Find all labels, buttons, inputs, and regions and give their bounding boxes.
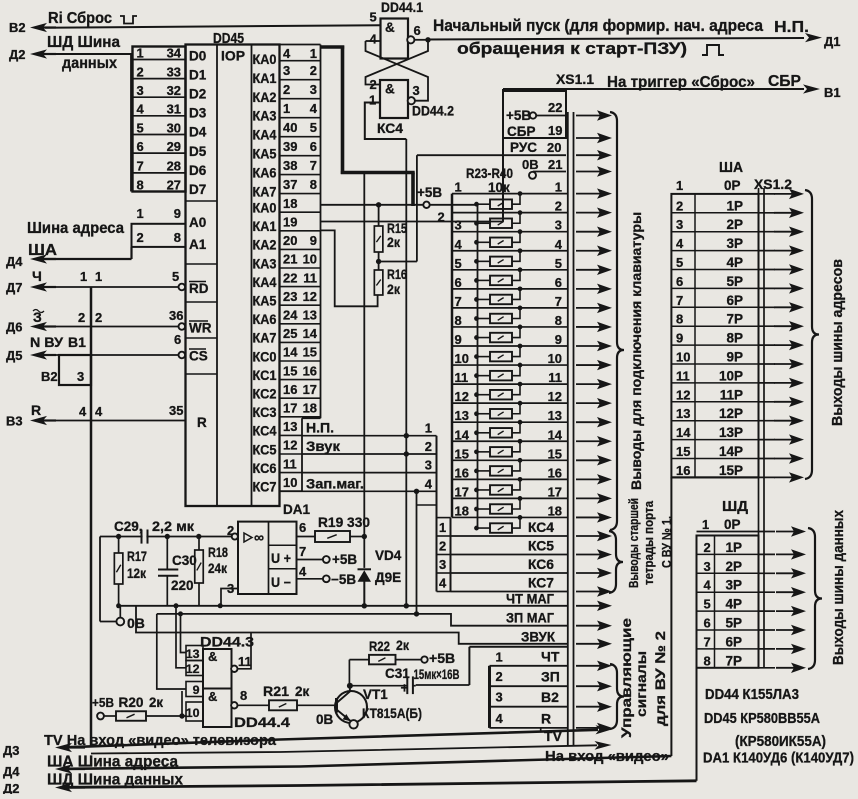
svg-text:1: 1 [496,650,503,665]
svg-text:13: 13 [455,408,469,423]
svg-text:10: 10 [186,706,200,720]
svg-text:Ri Сброс: Ri Сброс [48,10,112,27]
svg-text:+5В: +5В [417,185,442,200]
wire Д4 [45,258,132,260]
wire keyboard row 15 [452,459,568,461]
wire VT1 emitter [337,710,352,723]
svg-text:37: 37 [283,177,297,192]
junction ЗП МАГ/КС7 [414,611,419,616]
svg-text:3: 3 [413,83,420,98]
wire Д3 TV видео line [68,730,598,747]
connector pin box right of DD45 [280,44,321,46]
svg-text:КС4: КС4 [377,121,403,136]
svg-text:22: 22 [283,270,297,285]
arrow output [576,326,601,328]
svg-text:КС7: КС7 [528,576,554,591]
wire ША feed vertical [670,477,672,756]
wire Н.П. to Д1 [426,38,804,40]
node B2 arrow (Ri Сброс) [40,26,56,28]
wire 0В circle to rail [119,606,121,618]
resistor R20 2к [116,711,146,721]
arrow output [576,459,601,461]
svg-text:11: 11 [455,370,469,385]
svg-text:4: 4 [555,237,563,252]
svg-text:3: 3 [455,218,462,233]
svg-text:34: 34 [167,45,182,60]
svg-text:15: 15 [303,345,317,360]
junction VT1 collector [347,683,353,689]
arrow ША 7Р [774,325,793,327]
arrow output [576,269,601,271]
terminal -5В circle DA1 [323,575,330,582]
svg-text:КС4: КС4 [253,424,277,439]
svg-text:VD4: VD4 [375,548,402,563]
svg-text:15Р: 15Р [719,463,743,478]
wire C31 to connector box [416,684,470,686]
svg-text:В3: В3 [6,414,23,429]
arrow ША 1Р [774,212,793,214]
svg-text:11: 11 [548,370,562,385]
svg-text:З: З [33,309,42,325]
arrow output [576,231,601,233]
arrow output [576,345,601,347]
arrow ША 14Р [774,458,793,460]
brace шина адресов [805,190,819,479]
svg-text:3: 3 [555,218,562,233]
arrow ШД [776,667,795,669]
arrow output [576,250,601,252]
resistor R34 10к [477,413,491,415]
svg-text:2к: 2к [295,684,310,699]
arrow output [576,665,601,667]
svg-text:3: 3 [310,82,317,97]
svg-text:9: 9 [174,206,181,221]
terminal +5В circle 2 [423,202,429,208]
svg-text:2: 2 [676,198,683,213]
arrow ШД [776,648,795,650]
svg-text:31: 31 [167,102,181,117]
svg-text:2: 2 [496,669,503,684]
wire ЗП row [490,685,568,687]
svg-text:R22: R22 [369,639,390,654]
svg-text:30: 30 [167,120,181,135]
svg-text:Д2: Д2 [3,781,19,794]
connector pin cells 13,12 [186,646,203,661]
svg-text:С30: С30 [172,553,197,568]
svg-text:Зап.маг.: Зап.маг. [306,475,364,491]
resistor R23 10к [477,203,491,205]
arrow output [576,383,601,385]
wire thick bus horizontal [341,171,415,175]
svg-text:14: 14 [676,425,691,440]
pulse symbol Ri [120,16,137,24]
svg-text:11: 11 [676,368,690,383]
arrow output [576,706,601,708]
wire R row [490,727,568,729]
svg-text:для ВУ № 2: для ВУ № 2 [653,631,669,726]
connector pin cells 9,10 [186,682,203,697]
svg-text:1: 1 [676,178,683,193]
svg-text:6: 6 [414,23,421,38]
svg-text:Д4: Д4 [6,254,23,269]
svg-text:7Р: 7Р [726,312,743,327]
wire pin6 to R19 [297,536,316,538]
capacitor C29 2,2мк [141,530,143,544]
wire R15/R16 junction horizontal [379,261,417,263]
wire СБР to В1 [503,88,804,90]
svg-text:1: 1 [702,517,709,532]
arrow ША 2Р [774,231,793,233]
svg-text:XS1.2: XS1.2 [754,176,792,192]
wire keyboard row 5 [452,269,568,271]
svg-text:7: 7 [299,544,306,559]
svg-text:0В: 0В [316,712,334,727]
svg-text:10: 10 [303,252,317,267]
svg-text:12: 12 [548,389,562,404]
resistor R24 10к [477,222,491,224]
wire СБР vertical [502,89,504,222]
svg-text:0В: 0В [522,157,539,172]
inverter circle DD44.2 [408,97,415,104]
svg-text:&: & [385,82,395,97]
svg-text:КС5: КС5 [528,539,554,554]
arrow output [576,137,601,139]
svg-text:2: 2 [704,540,711,555]
svg-text:Д6: Д6 [6,320,22,335]
wire C29 top rail [100,536,232,538]
svg-text:23: 23 [283,289,297,304]
wire R21 to VT1 base [297,704,336,706]
wire cross-coupling RS latch [366,40,429,85]
svg-text:19: 19 [283,215,297,230]
wire keyboard row 7 [452,307,568,309]
svg-text:R: R [197,415,207,430]
wire boundary double line 1 [567,112,569,746]
svg-text:D5: D5 [189,144,207,159]
svg-text:3: 3 [283,63,290,78]
svg-text:2: 2 [425,439,432,454]
resistor R40 10к [477,527,491,529]
svg-text:+5В: +5В [429,650,455,666]
arrow ША 5Р [774,287,793,289]
svg-text:+5В: +5В [92,695,114,710]
svg-text:СБР: СБР [768,73,801,90]
wire КС4/КС5 vertical [405,139,407,606]
gate DD44.4 [203,689,232,728]
svg-text:ШД Шина данных: ШД Шина данных [47,772,183,789]
svg-text:13: 13 [548,408,562,423]
svg-text:12к: 12к [127,566,146,581]
arrow output [576,497,601,499]
svg-text:R21: R21 [263,684,290,699]
svg-text:VT1: VT1 [363,687,388,702]
svg-text:Начальный пуск (для формир. на: Начальный пуск (для формир. нач. адреса [433,17,764,35]
svg-text:2: 2 [78,310,85,325]
junction output 6 [425,37,430,42]
svg-text:9: 9 [193,683,200,697]
svg-text:18: 18 [303,401,317,416]
svg-text:3: 3 [496,690,503,705]
svg-text:15: 15 [283,363,297,378]
arrow output [576,115,601,117]
wire КС6 lower row [451,572,568,574]
junction КС5 net / rail [404,603,409,608]
svg-text:14: 14 [283,345,298,360]
svg-text:12: 12 [283,438,297,453]
arrow output [576,605,601,607]
svg-text:24к: 24к [208,561,227,576]
svg-text:R19 330: R19 330 [318,515,370,530]
wire ШД feed vertical [696,668,698,781]
arrow output [576,478,601,480]
svg-text:15: 15 [455,446,469,461]
arrow output [576,154,601,156]
wire thick bus vertical left [341,46,345,175]
arrow output [576,727,601,729]
svg-text:11: 11 [238,654,252,669]
wire КС6 upper row [302,472,437,474]
svg-text:5Р: 5Р [726,274,743,289]
svg-text:9: 9 [455,332,462,347]
junction R15 top [376,202,381,207]
resistor R38 10к [477,489,491,491]
svg-text:4: 4 [496,711,504,726]
svg-text:6: 6 [676,274,683,289]
svg-text:D6: D6 [189,163,207,178]
connector box lower КС4-КС7 pins 1-4 [450,518,452,592]
svg-text:1: 1 [283,101,290,116]
wire R15 top [378,205,380,226]
arrow output [576,572,601,574]
wire Ч to RD [45,286,178,288]
svg-text:В1: В1 [68,334,86,350]
wire N ВУ В1 to CS [45,354,178,356]
wire XS1.2 double line 1 [758,188,760,668]
connector box ЧТ/ЗП/В2/R pins 1-4 [469,646,567,648]
svg-text:9: 9 [555,332,562,347]
svg-text:6: 6 [310,139,317,154]
svg-text:КС3: КС3 [253,405,277,420]
svg-text:7: 7 [455,294,462,309]
svg-text:1: 1 [80,269,87,284]
svg-text:0Р: 0Р [724,517,741,532]
svg-text:5: 5 [137,120,144,135]
svg-text:КА7: КА7 [253,184,277,199]
svg-text:Н.П.: Н.П. [774,19,809,36]
wire ЗВУК [136,606,568,644]
svg-text:6Р: 6Р [725,634,742,649]
svg-text:С31: С31 [385,666,410,681]
junction КС7/Зап.маг [414,489,419,494]
node Д4 arrow bottom [65,768,85,770]
wire pin12 feed [176,606,186,668]
svg-text:9: 9 [676,331,683,346]
svg-text:12: 12 [303,289,317,304]
svg-text:0Р: 0Р [724,178,741,193]
svg-text:4: 4 [370,32,378,47]
wire 0В stub [100,621,116,623]
svg-text:DD44.2: DD44.2 [412,103,454,119]
svg-text:39: 39 [283,139,297,154]
svg-text:24: 24 [283,308,298,323]
svg-text:1: 1 [137,206,144,221]
svg-text:8: 8 [240,688,247,703]
svg-text:4: 4 [310,101,318,116]
wire keyboard row 17 [452,497,568,499]
wire keyboard row 6 [452,288,568,290]
inverter circle RD [179,284,186,291]
svg-text:6: 6 [137,139,144,154]
wire +5В feed [321,204,478,206]
svg-text:В2: В2 [541,689,559,705]
wire keyboard row 4 [452,250,568,252]
svg-text:КС1: КС1 [253,368,277,383]
svg-text:−5В: −5В [331,572,356,587]
svg-text:14Р: 14Р [719,444,743,459]
wire КС5 upper row [302,453,437,455]
svg-text:1: 1 [137,45,144,60]
arrow ША 4Р [774,269,793,271]
svg-text:8: 8 [555,313,562,328]
svg-text:7: 7 [310,158,317,173]
svg-text:+: + [401,681,409,696]
svg-text:DA1 К140УД6 (К140УД7): DA1 К140УД6 (К140УД7) [703,751,854,767]
svg-text:R20: R20 [119,695,144,710]
svg-text:18: 18 [455,503,469,518]
svg-text:13Р: 13Р [719,425,743,440]
svg-text:32: 32 [167,83,181,98]
terminal +5В circle DA1 [323,556,330,563]
wire output 11 to ЗВУК [238,633,252,669]
inverter circle WR [179,323,186,330]
inverter circle DD44.4 [231,702,237,708]
terminal +5В R22 [421,656,427,662]
svg-text:7: 7 [555,294,562,309]
wire R15-R16 [378,252,380,270]
wire Ri Сброс to DD44.1 pin 5 [45,25,381,28]
svg-text:20: 20 [547,140,561,155]
svg-text:12Р: 12Р [719,406,743,421]
svg-text:КА1: КА1 [253,219,277,234]
svg-text:8: 8 [137,177,144,192]
svg-text:U +: U + [271,551,291,566]
svg-text:Выводы для подключения клавиат: Выводы для подключения клавиатуры [629,212,645,490]
svg-text:4: 4 [425,476,433,491]
wire З to WR [45,326,178,328]
wire keyboard row 1 [452,193,568,195]
svg-text:11: 11 [303,270,317,285]
wire keyboard row 2 [452,212,568,214]
wire pin4 [366,40,381,42]
svg-text:ША Шина адреса: ША Шина адреса [47,754,178,771]
svg-text:10Р: 10Р [719,368,743,383]
svg-text:38: 38 [283,158,297,173]
arrow ША 0Р [774,193,793,195]
svg-text:2: 2 [438,210,445,225]
svg-text:ШД: ШД [722,499,749,515]
svg-text:6: 6 [299,520,306,535]
svg-text:0В: 0В [127,615,145,631]
svg-text:Д1: Д1 [824,34,840,49]
wire keyboard row 14 [452,440,568,442]
svg-text:Выходы шины данных: Выходы шины данных [831,509,847,665]
svg-text:8: 8 [174,230,181,245]
wire 0В rail / ЧТ МАГ [117,605,568,607]
svg-text:6: 6 [555,275,562,290]
junction R19/VD4 [362,534,367,539]
wire pin10 vertical [181,691,183,716]
svg-text:D4: D4 [189,125,207,140]
resistor R36 10к [477,451,491,453]
svg-text:2к: 2к [387,235,400,250]
svg-text:R: R [541,710,551,726]
svg-text:4Р: 4Р [725,597,742,612]
svg-text:10: 10 [455,351,469,366]
svg-text:СБР: СБР [507,124,535,139]
svg-text:ЗП МАГ: ЗП МАГ [506,609,554,625]
svg-text:6: 6 [704,616,711,631]
svg-text:5: 5 [704,597,711,612]
svg-text:14: 14 [303,326,318,341]
svg-text:16: 16 [548,465,562,480]
wire на вход видео [91,745,597,753]
svg-text:3: 3 [704,559,711,574]
wire resistor bus +5В [477,205,479,528]
arrow ШД [776,629,795,631]
arrow ША 9Р [774,363,793,365]
connector keyboard box rows 1-18 [451,194,454,518]
arrow output [576,625,601,627]
junction C30 top [165,534,170,539]
svg-text:ШД Шина: ШД Шина [47,34,120,51]
svg-text:33: 33 [167,64,181,79]
svg-text:18: 18 [283,196,297,211]
svg-text:9: 9 [310,233,317,248]
svg-text:5: 5 [370,10,377,25]
svg-text:17: 17 [303,382,317,397]
arrow output [576,193,601,195]
node В1 arrow [803,84,820,93]
svg-text:5: 5 [555,256,562,271]
wire TV cell edge [540,728,542,732]
svg-text:В2: В2 [9,20,26,35]
svg-text:8: 8 [455,313,462,328]
wire В2 row [490,706,568,708]
arrow output [576,171,601,173]
svg-text:(КР580ИК55А): (КР580ИК55А) [735,734,826,750]
svg-text:КС6: КС6 [253,461,277,476]
inverter circle DD44.3 [231,666,237,672]
svg-text:2к: 2к [396,638,409,653]
svg-text:Д4: Д4 [3,764,20,779]
svg-text:1Р: 1Р [726,198,743,213]
node Д2 arrow bottom [65,786,85,788]
svg-text:22: 22 [548,100,562,115]
svg-text:R15: R15 [387,221,407,236]
arrow output [576,643,601,645]
svg-text:4: 4 [704,578,712,593]
svg-text:+5В: +5В [332,552,357,567]
inverter circle DD44.1 [407,36,414,43]
svg-text:2: 2 [310,63,317,78]
junction pin3/rail [218,603,223,608]
svg-text:15мк×16В: 15мк×16В [414,667,460,682]
svg-text:WR: WR [189,321,212,336]
wire connector boundary vertical [90,287,93,747]
svg-text:IOP: IOP [221,49,245,64]
svg-text:DD45 КР580ВВ55А: DD45 КР580ВВ55А [704,711,820,727]
svg-text:Н.П.: Н.П. [306,420,334,436]
